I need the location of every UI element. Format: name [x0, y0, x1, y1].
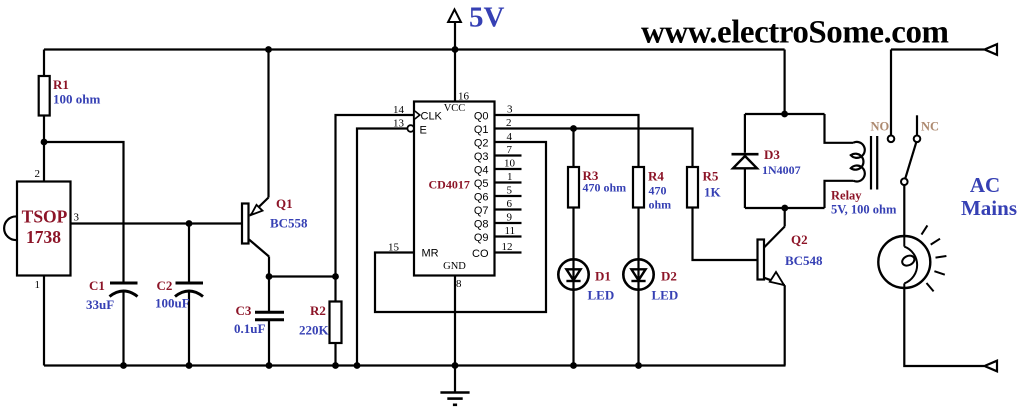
svg-text:BC548: BC548: [785, 253, 823, 268]
wire R2 top lead: [334, 277, 336, 302]
junction C1-ground rail: [120, 362, 127, 369]
svg-text:1: 1: [507, 171, 513, 183]
svg-text:E: E: [420, 125, 427, 137]
svg-text:www.electroSome.com: www.electroSome.com: [641, 15, 949, 51]
transistor Q1 base bar: [242, 204, 249, 244]
svg-text:CO: CO: [472, 248, 489, 260]
svg-text:D3: D3: [764, 147, 780, 162]
svg-text:MR: MR: [422, 248, 439, 260]
wire node B to R2 top node: [269, 275, 336, 277]
wire C1 bottom lead: [122, 291, 124, 366]
wire D2 to ground rail: [637, 290, 639, 366]
wire node A to C1 column: [44, 142, 124, 283]
svg-text:CLK: CLK: [421, 111, 443, 123]
junction pin2-R3 branch: [570, 125, 577, 132]
svg-text:C1: C1: [89, 278, 105, 293]
junction C3-ground rail: [266, 362, 273, 369]
terminal top-right: [985, 44, 998, 55]
power symbol 5V arrow: [454, 22, 456, 50]
wire relay/diode bottom: [745, 207, 825, 209]
svg-text:Q5: Q5: [474, 178, 489, 190]
junction R2 top (CLK wire / R2): [332, 273, 339, 280]
wire relay/diode top: [745, 113, 825, 115]
svg-text:NC: NC: [921, 120, 939, 134]
svg-text:220K: 220K: [299, 323, 330, 338]
svg-text:Mains: Mains: [961, 196, 1017, 220]
svg-text:LED: LED: [652, 288, 679, 303]
lamp: [878, 236, 930, 288]
pin stub Q4: [495, 168, 522, 170]
wire C2 bottom lead: [188, 291, 190, 366]
CLK input triangle: [415, 111, 420, 119]
LED D2: [623, 259, 653, 289]
svg-text:470 ohm: 470 ohm: [583, 181, 627, 195]
svg-text:2: 2: [35, 168, 41, 180]
transistor Q1 emitter line: [250, 198, 269, 216]
junction Q2 collector-relay bottom: [781, 205, 788, 212]
svg-text:TSOP: TSOP: [22, 207, 68, 227]
wire R2 node up and to CLK pin14: [336, 115, 415, 277]
resistor R3: [568, 167, 579, 208]
junction C2-ground rail: [186, 362, 193, 369]
junction E wire-ground rail: [354, 362, 361, 369]
wire Q1 emitter to top rail: [267, 50, 269, 198]
svg-text:Q8: Q8: [474, 219, 489, 231]
wire R5 to Q2 base: [693, 208, 758, 261]
svg-text:C2: C2: [157, 278, 173, 293]
svg-text:5: 5: [507, 185, 513, 197]
wire NO contact from top rail: [890, 50, 892, 136]
svg-text:Q2: Q2: [791, 232, 808, 247]
pin stub Q8: [495, 222, 522, 224]
svg-text:5V, 100 ohm: 5V, 100 ohm: [831, 203, 897, 217]
capacitor C1: [110, 282, 138, 285]
svg-text:Q1: Q1: [474, 124, 489, 136]
svg-text:Q2: Q2: [474, 138, 489, 150]
svg-text:LED: LED: [588, 288, 615, 303]
svg-text:R1: R1: [53, 77, 69, 92]
pin stub Q3: [495, 154, 522, 156]
NO contact circle: [888, 136, 895, 143]
resistor R5: [687, 167, 698, 208]
svg-text:7: 7: [507, 144, 513, 156]
wire R1 bottom to TSOP pin2: [43, 116, 45, 182]
svg-text:Q9: Q9: [474, 232, 489, 244]
svg-text:100 ohm: 100 ohm: [53, 92, 100, 107]
inverting bubble E pin: [407, 125, 414, 132]
junction pin3-C2: [186, 220, 193, 227]
resistor R2: [330, 302, 342, 344]
svg-text:CD4017: CD4017: [429, 178, 470, 192]
junction R2-ground rail: [332, 362, 339, 369]
TSOP lens bump: [4, 216, 17, 240]
svg-text:8: 8: [456, 278, 462, 290]
NC contact stub: [916, 115, 918, 135]
svg-text:12: 12: [502, 241, 513, 253]
wire Q2out pin4 to MR pin15 feedback: [375, 142, 546, 312]
pin stub Q6: [495, 195, 522, 197]
wire C2 top lead: [188, 224, 190, 284]
wire D3 top lead: [744, 114, 746, 153]
wire Q1 collector to node B: [268, 257, 270, 277]
svg-text:5V: 5V: [469, 2, 505, 34]
svg-text:Q3: Q3: [474, 151, 489, 163]
svg-text:6: 6: [507, 198, 513, 210]
svg-text:VCC: VCC: [444, 103, 466, 114]
wire relay coil bottom lead: [825, 181, 854, 208]
wire R3 to D1: [572, 208, 574, 290]
relay core lines: [870, 136, 872, 190]
wire C3 top lead: [268, 277, 270, 312]
wire R4 to D2: [637, 208, 639, 290]
pin stub Q5: [495, 181, 522, 183]
transistor Q1 emitter arrow: [251, 205, 263, 215]
svg-text:1K: 1K: [704, 185, 722, 200]
svg-text:13: 13: [393, 118, 405, 130]
ground symbol: [454, 366, 456, 393]
pin stub Q9: [495, 235, 522, 237]
transistor Q2 base bar: [758, 240, 765, 280]
svg-text:15: 15: [388, 242, 400, 254]
transistor Q2 emitter line: [764, 278, 785, 285]
wire TSOP pin1 to ground rail: [43, 276, 45, 366]
switch common circle: [901, 178, 908, 185]
svg-text:1N4007: 1N4007: [762, 163, 801, 177]
junction GND-ground rail: [452, 362, 459, 369]
wire R2 bottom lead: [334, 343, 336, 366]
svg-text:11: 11: [505, 225, 516, 237]
wire E pin13 to ground rail: [357, 129, 407, 366]
wire TSOP pin3 to Q1 base: [71, 222, 243, 224]
junction Q1 emitter-top rail: [265, 46, 272, 53]
svg-text:33uF: 33uF: [86, 297, 114, 312]
junction relay top node: [781, 111, 788, 118]
svg-text:10: 10: [504, 158, 516, 170]
transistor Q1 collector line: [249, 240, 269, 257]
IC CD4017 body: [414, 102, 495, 276]
wire top rail NO-to-terminal segment: [891, 48, 984, 50]
svg-text:NO: NO: [871, 120, 890, 134]
IC TSOP1738 body: [17, 182, 71, 276]
svg-text:0.1uF: 0.1uF: [234, 321, 265, 336]
svg-text:1: 1: [35, 279, 41, 291]
svg-text:2: 2: [506, 117, 512, 129]
svg-text:R2: R2: [310, 303, 326, 318]
transistor Q2 collector line: [764, 227, 785, 248]
wire GND pin8 to ground rail: [454, 276, 456, 366]
svg-text:D2: D2: [661, 269, 677, 284]
svg-text:470: 470: [649, 184, 667, 198]
svg-text:BC558: BC558: [270, 216, 308, 231]
svg-text:D1: D1: [595, 269, 611, 284]
wire R3 top lead from pin2 wire: [572, 129, 574, 168]
wire relay branch from top rail: [783, 50, 785, 115]
wire C3 bottom lead: [268, 321, 270, 366]
terminal bottom-right: [985, 361, 998, 372]
svg-text:AC: AC: [970, 173, 1000, 197]
wire relay coil top lead: [825, 114, 854, 143]
wire lamp to bottom terminal: [904, 288, 984, 366]
NC contact circle: [914, 136, 921, 143]
svg-text:GND: GND: [443, 261, 466, 272]
wire D1 to ground rail: [572, 290, 574, 366]
LED D1: [558, 259, 588, 289]
wire Q2 collector to relay node: [784, 208, 786, 227]
wire R1 top lead: [43, 50, 45, 77]
svg-text:C3: C3: [236, 303, 252, 318]
svg-text:1738: 1738: [26, 227, 61, 247]
svg-text:16: 16: [458, 91, 470, 103]
junction 5V node: [452, 46, 459, 53]
svg-text:Q7: Q7: [474, 205, 489, 217]
junction D2-ground rail: [635, 362, 642, 369]
transistor Q2 emitter arrow: [770, 272, 784, 285]
relay coil L1: [851, 142, 865, 182]
svg-text:Q0: Q0: [474, 111, 489, 123]
lamp rays: [922, 225, 928, 234]
wire switch common to lamp: [903, 185, 905, 236]
resistor R1: [39, 76, 50, 116]
pin stub CO: [495, 251, 522, 253]
diode D3: [732, 153, 759, 156]
svg-text:3: 3: [74, 212, 80, 224]
wire D3 bottom lead: [744, 168, 746, 208]
ground rail (bottom net): [44, 364, 786, 366]
capacitor C3: [255, 311, 284, 314]
svg-text:ohm: ohm: [649, 198, 672, 212]
svg-text:9: 9: [507, 212, 513, 224]
pin stub Q7: [495, 208, 522, 210]
svg-text:14: 14: [393, 104, 405, 116]
capacitor C2: [176, 282, 204, 285]
svg-text:Q4: Q4: [474, 165, 489, 177]
node B junction (Q1 collector / C3 / wire to R2): [266, 273, 273, 280]
wire Q0 pin3 to R4: [495, 115, 639, 167]
svg-text:100uF: 100uF: [155, 296, 190, 311]
svg-text:Q6: Q6: [474, 192, 489, 204]
svg-text:3: 3: [507, 104, 513, 116]
wire Q1out pin2 to R5: [495, 129, 693, 168]
node A junction (R1 / TSOP pin2 / C1 branch): [41, 139, 48, 146]
svg-text:4: 4: [507, 131, 513, 143]
wire top rail from R1 top to relay branch: [44, 48, 785, 50]
wire VCC pin16 to 5V rail: [454, 50, 456, 102]
svg-text:R5: R5: [703, 169, 719, 184]
svg-text:R4: R4: [648, 169, 664, 184]
wire Q2 emitter to ground rail: [784, 285, 786, 365]
svg-text:Q1: Q1: [276, 196, 293, 211]
svg-text:Relay: Relay: [831, 189, 862, 203]
junction D1-ground rail: [570, 362, 577, 369]
resistor R4: [633, 167, 644, 208]
switch lever: [905, 142, 916, 179]
